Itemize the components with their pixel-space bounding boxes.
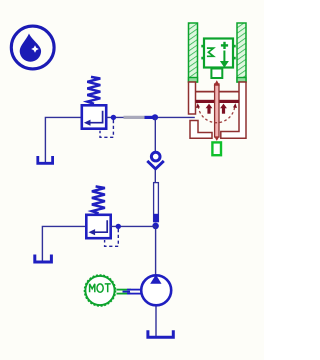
relief valve V2 body (86, 215, 110, 238)
wire V2 left (42, 226, 85, 261)
load tab (211, 69, 222, 79)
arc arrowhead left (196, 103, 200, 108)
rod bottom tip (214, 137, 219, 141)
cylinder left wall (189, 82, 196, 114)
port dot V1 (111, 115, 116, 120)
pressure arrow left (207, 108, 210, 114)
piston rod (215, 84, 219, 137)
relief valve V1 arrow (90, 111, 103, 123)
relief valve V1 body (82, 105, 106, 128)
shaft motor side (117, 289, 132, 291)
relief valve V2 spring (92, 186, 105, 213)
load box (204, 39, 233, 68)
mass label M (207, 48, 214, 56)
bold wire segment (145, 116, 153, 119)
tank T3 (148, 330, 173, 337)
motor M1 (85, 275, 116, 306)
wire junction2 down to pump (155, 226, 157, 275)
guide rail left (189, 23, 198, 82)
pilot line V1 (100, 120, 113, 137)
wire junction1 to cylinder (155, 116, 195, 118)
pressure arrow right (222, 108, 225, 114)
rail caps (189, 78, 198, 83)
flow arc dashed (198, 106, 235, 122)
plus sign (221, 44, 228, 46)
wire pump to tank (155, 307, 157, 337)
wire V2 right (110, 225, 155, 227)
shaft pump side (127, 289, 142, 291)
pilot line V2 (105, 229, 119, 246)
logo ring (11, 26, 54, 69)
rod top arrow (214, 80, 220, 86)
tank T2 (35, 255, 52, 263)
piston (196, 100, 240, 103)
pipe element (154, 183, 159, 222)
port dot V2 (116, 224, 121, 229)
tank T1 (38, 156, 53, 163)
arc arrowhead right (233, 103, 237, 108)
cylinder port green (212, 142, 221, 155)
load rollers (201, 45, 204, 48)
wire V1 left (45, 117, 80, 162)
cylinder head line (196, 91, 240, 93)
grey line segment (124, 116, 145, 119)
wire junction1 down (154, 117, 156, 151)
node junction1 (152, 114, 158, 120)
check valve ball (151, 152, 160, 161)
relief valve V1 spring (87, 77, 100, 104)
logo sparkle (31, 45, 39, 53)
pump P1 (141, 275, 171, 305)
node junction2 (152, 223, 159, 230)
down arrow (223, 51, 225, 62)
logo drop (20, 34, 41, 62)
cylinder right wall and floor (221, 82, 246, 138)
guide rail right (237, 23, 246, 82)
relief valve V2 arrow (95, 220, 108, 232)
cylinder left bottom L (190, 121, 212, 139)
wire check valve to pipe (154, 170, 156, 183)
check valve seat (147, 161, 164, 169)
wire V1 right (106, 116, 124, 118)
